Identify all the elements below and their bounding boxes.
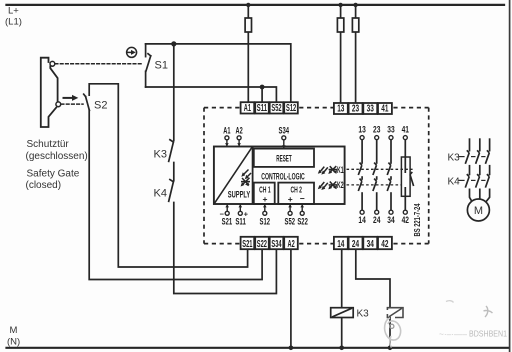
polarity marks supply pins — [220, 209, 249, 218]
svg-text:+: + — [263, 194, 268, 204]
pin S52 of module — [288, 204, 292, 215]
svg-text:Schutztür: Schutztür — [27, 139, 70, 150]
svg-text:A2: A2 — [288, 239, 296, 250]
svg-text:14: 14 — [337, 239, 345, 250]
svg-text:K4: K4 — [448, 176, 461, 187]
svg-text:41: 41 — [402, 125, 409, 135]
svg-text:Safety Gate: Safety Gate — [27, 168, 80, 179]
wire S1 top to S12 terminal — [146, 44, 291, 102]
svg-text:K3: K3 — [154, 149, 167, 161]
relay module main block — [214, 147, 345, 205]
svg-text:S11: S11 — [257, 103, 268, 114]
svg-text:S22: S22 — [257, 239, 268, 250]
reset block — [254, 149, 314, 167]
svg-text:SUPPLY: SUPPLY — [228, 189, 251, 199]
mechanical link K2 contacts (dashed) — [347, 184, 402, 186]
svg-text:A2: A2 — [236, 126, 243, 136]
svg-text:13: 13 — [358, 125, 365, 135]
pin S22 of module — [300, 204, 304, 215]
svg-text:23: 23 — [352, 104, 360, 115]
supply diagonal — [214, 147, 252, 204]
svg-text:42: 42 — [402, 215, 409, 225]
svg-text:24: 24 — [373, 215, 380, 225]
node M return rail — [7, 347, 509, 349]
node L+ supply rail — [7, 4, 505, 6]
watermark small dash — [446, 301, 454, 303]
pin S11 of module — [238, 204, 242, 215]
wire terminal 24 to coil K4 — [356, 249, 393, 350]
wire 23 feed from L+ — [353, 3, 357, 104]
svg-text:~·–·—–: ~·–·—– — [439, 330, 468, 339]
relay K1 coil symbol — [318, 166, 337, 175]
output contact 23-24 — [373, 125, 381, 225]
svg-text:BS 221-7-24: BS 221-7-24 — [413, 203, 422, 236]
terminal row 13 23 33 41 — [334, 103, 392, 115]
watermark script mark — [484, 306, 493, 317]
svg-text:(closed): (closed) — [26, 180, 62, 191]
actuation direction symbol (circled arrow) — [127, 47, 137, 57]
svg-text:RESET: RESET — [276, 154, 292, 165]
svg-text:(N): (N) — [7, 337, 20, 348]
svg-text:S52: S52 — [271, 103, 282, 114]
supply opto symbol — [241, 170, 251, 187]
supply section divider — [252, 147, 254, 205]
safety gate door symbol — [41, 58, 58, 127]
relay coil K3 — [331, 308, 354, 318]
svg-text:M: M — [10, 325, 18, 336]
terminal row 14 24 34 42 — [334, 237, 392, 250]
svg-text:A1: A1 — [223, 126, 230, 136]
svg-text:S34: S34 — [279, 126, 290, 136]
svg-text:S22: S22 — [297, 216, 308, 226]
svg-text:14: 14 — [358, 215, 365, 225]
terminal row A1 S11 S52 S12 — [241, 102, 298, 114]
fuse F1 — [245, 18, 251, 32]
door contact circle upper — [50, 61, 55, 66]
border edge right — [509, 0, 511, 352]
svg-text:34: 34 — [367, 239, 375, 250]
svg-text:+: + — [288, 194, 293, 204]
svg-text:41: 41 — [381, 104, 389, 115]
svg-text:33: 33 — [367, 104, 375, 115]
contactor K3 main contacts — [465, 150, 489, 175]
svg-text:K1: K1 — [337, 165, 344, 175]
pin A2 of module — [236, 126, 243, 147]
three phase lines — [470, 138, 490, 151]
output contact 13-14 — [358, 125, 366, 225]
svg-text:S21: S21 — [222, 216, 233, 226]
svg-text:CONTROL-LOGIC: CONTROL-LOGIC — [261, 171, 305, 181]
link dashes K3 row — [459, 156, 486, 158]
svg-text:L+: L+ — [8, 6, 19, 17]
pin S21 of module — [225, 204, 229, 215]
svg-text:K3: K3 — [448, 153, 461, 164]
svg-text:S1: S1 — [155, 60, 168, 72]
pin S34 of module — [279, 126, 290, 149]
wire A2 to M rail — [289, 249, 294, 350]
svg-text:S2: S2 — [94, 99, 107, 111]
svg-text:S21: S21 — [242, 239, 253, 250]
contact K4 feedback (NC aux) — [169, 180, 174, 202]
output contact 41-42 (NC) — [401, 125, 413, 225]
svg-text:K4: K4 — [154, 188, 167, 200]
mechanical link door to S1 — [55, 63, 141, 65]
svg-text:S11: S11 — [235, 216, 246, 226]
wire terminal 14 to coil K3 — [339, 249, 344, 350]
svg-text:(geschlossen): (geschlossen) — [26, 151, 88, 162]
link dashes K4 row — [459, 179, 486, 181]
svg-text:S12: S12 — [286, 103, 297, 114]
wire S22 loop to S2 bottom — [89, 110, 262, 279]
svg-text:S12: S12 — [260, 216, 271, 226]
motor feed wires — [470, 189, 490, 203]
svg-text:A1: A1 — [244, 103, 252, 114]
module boundary dashed box — [204, 108, 429, 244]
relay K2 coil symbol — [318, 182, 337, 191]
svg-text:42: 42 — [381, 239, 389, 250]
fuse F3 — [352, 18, 358, 32]
svg-text:K2: K2 — [337, 180, 344, 190]
channel 1 block — [254, 183, 275, 204]
channel 2 block — [278, 183, 314, 204]
svg-text:(L1): (L1) — [5, 17, 22, 28]
contact K3 feedback (NC aux) — [169, 140, 174, 162]
wire S21 loop to S2 top — [89, 84, 247, 267]
wire S1 bottom to S11 and S52 — [146, 85, 277, 103]
actuation arrow at S2 — [64, 95, 79, 101]
terminal row S21 S22 S34 A2 — [241, 237, 298, 250]
switch S1 (NC, door operated) — [146, 44, 151, 87]
svg-text:33: 33 — [387, 125, 394, 135]
mechanical link door to S2 — [61, 103, 83, 105]
svg-text:24: 24 — [352, 239, 360, 250]
relay coil K4 (faded by watermark) — [387, 308, 403, 318]
wire A1 feed from L+ — [246, 3, 250, 103]
contactor K4 main contacts — [465, 174, 489, 188]
svg-text:BDSHBEN1: BDSHBEN1 — [469, 329, 507, 339]
wire 13 feed from L+ — [338, 3, 342, 104]
svg-text:−: − — [300, 193, 305, 203]
svg-text:23: 23 — [373, 125, 380, 135]
svg-text:K3: K3 — [357, 308, 370, 319]
pin A1 of module — [223, 126, 230, 147]
door contact circle lower — [56, 102, 61, 107]
pin S12 of module — [263, 204, 267, 215]
svg-text:M: M — [474, 205, 483, 217]
output contact 33-34 — [387, 125, 394, 225]
svg-text:13: 13 — [337, 104, 345, 115]
watermark swirl — [385, 318, 401, 348]
motor M — [467, 199, 489, 221]
svg-text:S34: S34 — [271, 239, 282, 250]
svg-text:S52: S52 — [285, 216, 296, 226]
fuse F2 — [337, 18, 343, 32]
wire feedback loop K3/K4 to S34 — [174, 44, 277, 294]
switch S2 (NC, door operated) — [84, 94, 90, 110]
svg-text:34: 34 — [387, 215, 394, 225]
mechanical link K1 contacts (dashed) — [347, 168, 413, 170]
node junction S1/feedback — [171, 41, 176, 46]
